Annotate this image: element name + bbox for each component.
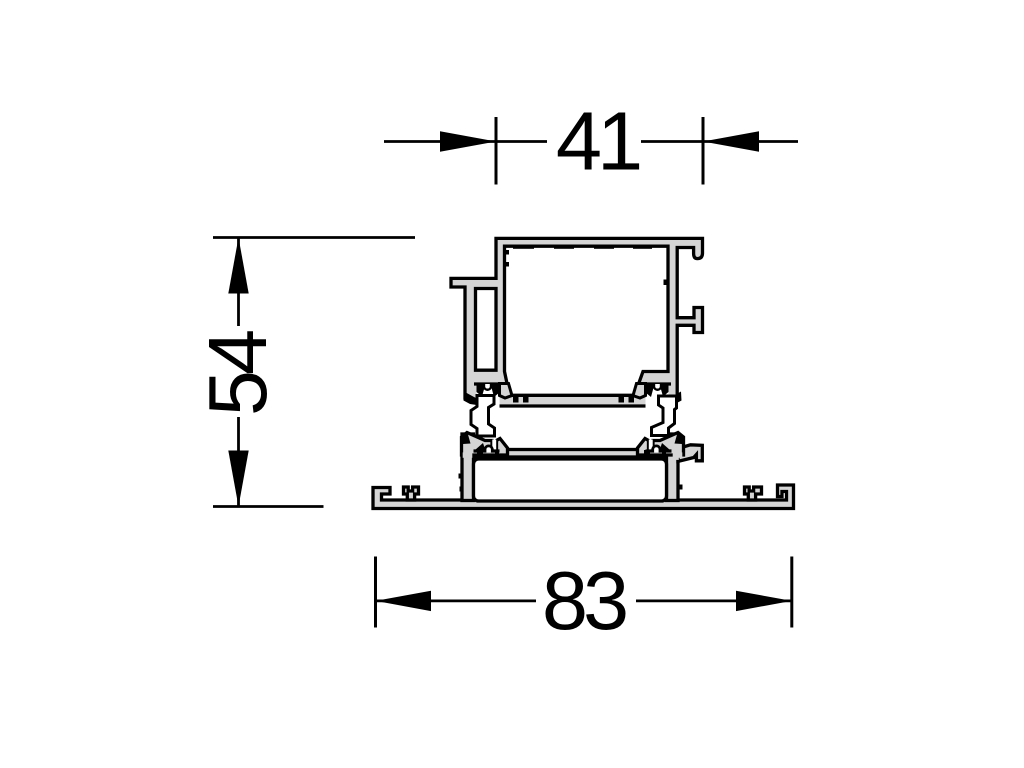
dim 41 left tail line [384,140,496,143]
dim 54 bottom extension line [213,505,324,508]
upper-left U-notch [484,384,491,390]
dim 41 left arrowhead [440,131,496,151]
upper frame silhouette with interior holes [451,238,703,406]
dim 83 right line segment [636,600,792,603]
dim 41 right arrowhead [703,131,759,151]
dim 83 left line segment [376,600,537,603]
dim 41 right tick [702,117,705,185]
lower-left clamp block [462,433,508,456]
left thermal break strip [471,396,495,437]
lower shelf grip serrations left [477,450,483,456]
dim 41 inner left segment [496,140,547,143]
dim 83 right arrowhead [736,591,792,611]
svg-text:83: 83 [542,554,626,647]
lower-left recess white slot [492,440,496,450]
eraser under upper-left t-stub [461,400,477,410]
dim 54 top extension line [213,236,415,239]
upper-left claw triangle right [491,384,500,397]
gray patch over left wall at shelf junction [463,452,473,457]
svg-text:54: 54 [191,331,284,416]
top wall inner serrations [513,245,534,249]
long wall lower serrations right [619,397,625,403]
lower frame interior cavity [474,459,667,501]
dim 54 upper line segment [237,238,240,327]
right inner wall nub [664,280,669,286]
lower-left U-notch [485,446,492,453]
dim 41 right tail line [703,140,798,143]
lower right wall outer nub [678,485,683,490]
lower frame left wall [462,434,474,501]
dim 54 down arrowhead [228,451,248,507]
dim 83 right tick [790,557,793,628]
left inner wall nubs [505,250,510,255]
upper-left recess ceiling line [474,382,501,385]
lower shelf grip serrations right [644,450,650,456]
lower-left block claw spur [463,433,471,444]
left clip on base plate [404,487,419,500]
base plate with end lips [373,485,794,509]
dim 83 left arrowhead [376,591,432,611]
upper-left claw triangle left [477,384,486,397]
dim 54 lower line segment [237,417,240,507]
lower-left claw triangle left [475,443,486,451]
glazing fin with hook (lower right) [678,445,702,462]
upper-left block right limb [500,384,513,399]
lower left wall outer nub [459,474,463,479]
right thermal break strip [652,396,677,436]
upper-left t-stub claw foot [464,392,483,406]
dim 41 inner right segment [641,140,703,143]
right clip on base plate [745,487,762,500]
lower-left recess floor line [474,449,500,452]
gray patch at fin root over wall edge [676,450,679,460]
lower frame bottom shelf (transom wall) [470,450,670,458]
lower frame right wall [667,434,679,501]
gray patch over right wall at shelf junction [673,452,683,457]
long wall lower serrations left [513,397,519,403]
dim 41 left tick [495,117,498,185]
dim 54 up arrowhead [228,238,248,294]
upper-left dovetail recess [477,384,500,409]
dim 83 left tick [374,557,377,628]
svg-text:41: 41 [556,95,640,188]
